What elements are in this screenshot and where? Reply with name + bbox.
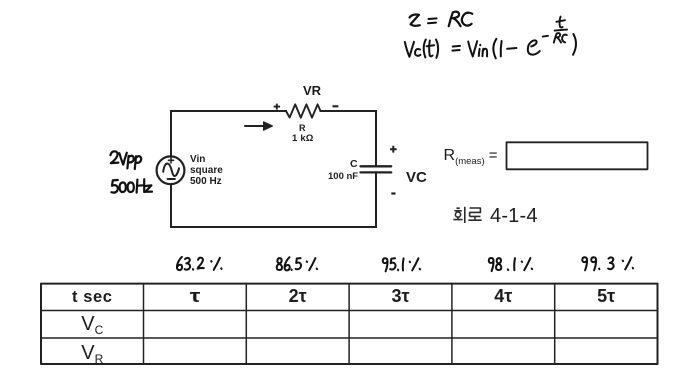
wire top-left segment [171,110,286,112]
handwritten 99.3% [582,257,633,270]
table row label VR [41,343,144,365]
capacitor C 100 nF plates [361,166,392,172]
label 1 kΩ [292,134,314,144]
table header 3tau [349,287,452,305]
table inner horizontal lines [41,311,658,339]
label 4-1-4 [490,206,538,226]
current arrow [245,122,273,131]
capacitor minus polarity [391,192,395,194]
table inner vertical lines [144,284,555,364]
Hangul label 회로 [453,207,481,223]
resistor minus polarity [333,105,339,107]
handwritten equation tau = RC [410,12,473,27]
label VR [303,84,321,97]
label Vin square 500 Hz [190,155,223,188]
resistor plus polarity [274,104,281,110]
table header 5tau [555,287,658,305]
wire left lower segment [170,184,172,227]
wire left upper segment [170,111,172,155]
label C [350,159,358,170]
wire right lower segment [375,172,377,227]
handwritten equation Vc(t) = Vin(1-e^-t/RC) [405,17,576,59]
capacitor plus polarity [390,146,397,153]
wire top-right segment [321,110,377,112]
table header 4tau [452,287,555,305]
label VC [406,170,427,185]
table outer border [41,284,658,364]
handwritten 98.1% [489,258,532,271]
table header tau [144,287,247,305]
handwritten 500Hz [111,179,152,192]
table row label VC [41,314,144,336]
source Vin circle [157,156,185,184]
resistor R 1 kΩ [286,104,321,117]
source plus sign [168,158,173,163]
R(meas) answer box [507,142,648,169]
handwritten 95.1% [383,258,420,271]
source sine wave [163,164,179,176]
wire right upper segment [375,111,377,166]
handwritten 86.5% [277,257,317,270]
table header t sec [41,289,144,306]
handwritten 2Vpp [110,151,141,169]
label 100 nF [328,172,358,182]
handwritten 63.2% [177,257,222,270]
label R [299,124,306,133]
wire bottom segment [171,226,376,228]
table header 2tau [246,287,349,305]
source minus sign [168,178,175,180]
label R(meas)= [444,148,498,167]
